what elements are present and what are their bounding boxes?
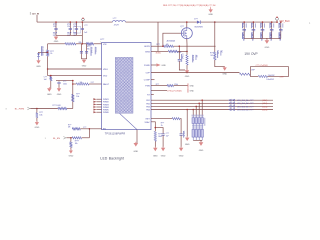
svg-text:GND: GND (179, 155, 184, 157)
wire mode stub (151, 89, 167, 91)
wire FB4 line (151, 109, 273, 111)
junction ovp divider on bus (214, 21, 216, 23)
capacitor Cout4 (270, 29, 274, 30)
svg-text:FLT: FLT (91, 82, 94, 84)
svg-text:24k9: 24k9 (158, 136, 162, 138)
wire C10 branch (155, 128, 163, 134)
junction FB2 tap (198, 103, 200, 105)
svg-text:GND: GND (57, 94, 62, 96)
net flag arrow PWM3 (93, 103, 96, 105)
resistor Rb2b (195, 129, 197, 137)
power flag bar mode (187, 88, 190, 92)
wire ovp divider top (214, 22, 216, 52)
wire ballast col 2 a (195, 116, 197, 118)
wire gate up (163, 33, 181, 46)
svg-text:GND: GND (47, 94, 52, 96)
svg-text:GND: GND (265, 47, 270, 49)
ground ovp divider (224, 66, 226, 67)
junction outcap 1 (243, 21, 245, 23)
wire ballast col 4 c (201, 137, 203, 140)
junction en link (89, 128, 91, 130)
junction sns on source (186, 51, 188, 53)
label strip R14b (195, 55, 198, 60)
label strip R14a (191, 55, 194, 63)
junction mosfet drain on bus (186, 21, 188, 23)
svg-text:OVP: OVP (146, 73, 151, 75)
wire ballast col 3 c (198, 137, 200, 140)
svg-text:VDAC: VDAC (145, 121, 151, 124)
svg-text:LED_BL0_B2+ R??: LED_BL0_B2+ R?? (237, 109, 254, 111)
wire BL_PWM (30, 108, 58, 110)
junction VIN drop meets feed (82, 43, 84, 45)
wire LED return (186, 110, 188, 138)
resistor R13 sns (168, 50, 177, 52)
resistor Rb3a (198, 118, 200, 124)
svg-text:GND: GND (69, 155, 74, 157)
svg-text:PGND: PGND (144, 65, 150, 67)
wire FB1 tap (201, 100, 203, 117)
junction mid rail top (72, 80, 74, 82)
wire ballast col 4 b (201, 124, 203, 130)
svg-text:FB4: FB4 (146, 110, 149, 112)
junction outcap 4 (271, 21, 273, 23)
svg-text:1uF: 1uF (166, 135, 169, 137)
wire zener branch (39, 51, 48, 54)
label strip Cout1 upper (241, 23, 244, 28)
svg-text:10k: 10k (76, 96, 79, 98)
junction FB3 tap (195, 106, 197, 108)
ground en pulldown (70, 149, 72, 150)
svg-text:FB3: FB3 (146, 106, 149, 108)
wire rowA (151, 118, 172, 120)
wire comp stub (151, 79, 155, 81)
ground bleed resistor (48, 87, 50, 88)
wire ballast col 2 b (195, 124, 197, 130)
label strip Cout1 lower (241, 32, 244, 39)
capacitor Cout1 (242, 29, 246, 30)
wire C10 stem (162, 135, 164, 147)
capacitor Cout2 (252, 29, 256, 30)
capacitor C??0 input (54, 28, 57, 29)
svg-text:47uH: 47uH (114, 25, 119, 27)
wire FB2 line (151, 102, 273, 104)
wire mosfet source (186, 39, 188, 55)
resistor R2 on VIN feed (86, 43, 94, 45)
wire bleed branch (50, 75, 52, 78)
wire pgnd stub (151, 64, 156, 66)
svg-text:12V_IN: 12V_IN (32, 13, 40, 15)
label strip Cout1 right (245, 23, 248, 27)
resistor R6 mid rail (72, 94, 74, 101)
wire rt stub (151, 93, 154, 95)
svg-text:BL_PWM: BL_PWM (15, 108, 24, 110)
wire top bus left segment (37, 21, 113, 23)
wire 12V_IN vertical (36, 15, 38, 22)
net flag arrow PWM1 (93, 98, 96, 100)
svg-text:LED_BL0_A2+ R??: LED_BL0_A2+ R?? (237, 102, 254, 105)
label strip C5 (90, 47, 93, 56)
resistor R18 ovp loop (258, 75, 267, 77)
junction outcap 3 (262, 21, 264, 23)
wire note gnd stub (210, 7, 212, 10)
capacitor C??2 input (75, 28, 78, 29)
wire ballast col 3 a (198, 116, 200, 118)
wire VIN feed mid (76, 43, 86, 45)
capacitor C10 (162, 134, 165, 135)
junction bleed on VDD (50, 75, 52, 77)
wire en link vertical (88, 129, 90, 138)
wire output bus (201, 21, 278, 23)
svg-text:FB1: FB1 (146, 100, 149, 102)
svg-text:GND: GND (185, 144, 190, 146)
svg-text:R??: R?? (156, 44, 159, 46)
capacitor C7 fault (57, 82, 60, 83)
wire en row (80, 128, 101, 130)
junction input cap1 on bus (70, 21, 72, 23)
junction fault on rail (72, 83, 74, 85)
wire fsw b (174, 85, 188, 87)
label strip Cout5 lower (278, 32, 281, 39)
wire input cap branch C??2 (75, 22, 77, 35)
svg-text:R?? 100R: R?? 100R (53, 105, 62, 107)
wire ballast col 4 a (201, 116, 203, 118)
svg-text:22nF/NC: 22nF/NC (268, 75, 276, 77)
svg-text:D??: D?? (194, 18, 197, 20)
resistor R15 fsw (167, 85, 174, 87)
wire vin filter cap1 (80, 44, 82, 59)
wire BL_EN (66, 137, 72, 139)
label strip C9 (182, 131, 185, 138)
wire rowA corner (180, 119, 181, 134)
svg-text:Q??: Q?? (180, 26, 184, 28)
wire outcap branch 5 (280, 22, 282, 38)
ground R20 (154, 147, 156, 148)
wire PWM4 stub (96, 106, 101, 108)
wire ovp divider stem (215, 60, 225, 67)
svg-text:FAULT: FAULT (103, 83, 110, 86)
label strip Cout5 upper (278, 23, 281, 28)
junction outcap 2 (253, 21, 255, 23)
svg-text:GND: GND (36, 66, 41, 68)
svg-text:VIN: VIN (103, 44, 107, 46)
wire BL_EN b (82, 137, 90, 139)
junction LED return (186, 109, 188, 111)
junction tp2 (276, 21, 278, 23)
port BL_EN chevron (63, 137, 66, 140)
label strip Cout2 lower (250, 32, 253, 39)
wire switch node stub down (157, 22, 159, 51)
wire pwm pulldown stem (36, 118, 38, 123)
label strip C8 (180, 54, 183, 62)
wire fault rail feed (56, 80, 73, 82)
wire PWM6 stub (96, 111, 101, 113)
wire gdrv a (151, 45, 163, 47)
junction input cap2 on bus (76, 21, 78, 23)
wire bleed stem (50, 81, 52, 89)
label strip R16a (216, 51, 219, 58)
resistor R10 en series (72, 137, 82, 139)
zener diode D1 (37, 53, 40, 56)
svg-text:2k: 2k (161, 125, 163, 127)
wire FB2 tap (198, 103, 200, 117)
wire BL_PWM b (67, 108, 73, 110)
hatched thermal pad of U1 (115, 57, 133, 113)
resistor Rb4b (201, 129, 203, 137)
svg-text:20k: 20k (79, 42, 82, 44)
wire pwm pulldown stub (36, 109, 38, 113)
wire ballast col 3 b (198, 124, 200, 130)
wire sns a (151, 50, 168, 52)
svg-text:100n: 100n (63, 83, 67, 85)
wire PWM3 stub (96, 103, 101, 105)
svg-text:(J2.3): (J2.3) (262, 103, 267, 105)
port 12V_IN bracket (29, 12, 31, 15)
wire C9 stem (180, 135, 182, 147)
wire input cap branch C??1 (69, 22, 71, 35)
net chevrons FB4 (229, 108, 232, 110)
resistor R20 iset (154, 131, 156, 141)
inductor L1 47uH (113, 21, 126, 23)
svg-text:120k: 120k (174, 84, 178, 86)
ground fault cap (58, 87, 60, 88)
junction BL_PWM pulldown (36, 108, 38, 110)
svg-text:10k: 10k (75, 143, 78, 145)
svg-text:PWM6: PWM6 (103, 112, 109, 114)
net flag arrow PWM5 (93, 109, 96, 111)
junction VFLD on rail (47, 68, 49, 70)
svg-text:2k: 2k (50, 53, 52, 55)
net chevrons FB1 (229, 99, 232, 101)
svg-text:GND: GND (199, 150, 204, 152)
wire fault cap stem (58, 84, 60, 89)
wire VIN feed to pin (94, 43, 102, 45)
svg-text:1: 1 (100, 42, 101, 44)
svg-text:ISNS: ISNS (145, 51, 150, 53)
resistor R7 series pwm (58, 107, 67, 109)
wire left rail top (47, 44, 49, 50)
capacitor C4 input (81, 28, 84, 29)
svg-text:GND: GND (161, 65, 166, 67)
label strip zener (40, 46, 43, 56)
resistor R9 en top (72, 128, 80, 130)
svg-text:TPS61196PWPR: TPS61196PWPR (105, 133, 126, 136)
junction gate node (162, 45, 164, 47)
svg-text:LED_BL0_B1+ R??: LED_BL0_B1+ R?? (237, 106, 254, 108)
wire left rail lower (47, 56, 49, 75)
wire VDD feed (48, 75, 102, 77)
wire fault cap stub (58, 81, 60, 82)
resistor R5 fault (76, 83, 89, 85)
svg-text:GND: GND (35, 127, 40, 129)
capacitor Cout3 (261, 29, 265, 30)
resistor R1 on VIN feed (65, 43, 76, 45)
capacitor C9 (180, 134, 183, 135)
svg-text:C?? 4.7uF/50V: C?? 4.7uF/50V (256, 65, 269, 67)
junction VIN drop on bus (82, 21, 84, 23)
svg-text:10k: 10k (39, 114, 42, 116)
svg-text:(J2.4): (J2.4) (262, 106, 267, 108)
transistor Q1 MOSFET AO3400A (181, 28, 192, 39)
wire PWM5 stub (96, 109, 101, 111)
resistor R11 en pulldown (70, 142, 72, 148)
wire input cap gnd rail (56, 34, 82, 36)
net chevrons FB2 (229, 102, 232, 104)
capacitor C??1 input (69, 28, 72, 29)
svg-text:GND: GND (190, 90, 195, 92)
wire outcap gnd stub (266, 38, 268, 40)
label strip Cout4 upper (269, 23, 272, 28)
wire ballast gnd stem (200, 140, 202, 142)
svg-text:GND: GND (161, 155, 166, 157)
resistor Rb3b (198, 129, 200, 137)
svg-text:(F,4G): (F,4G) (156, 53, 161, 55)
net flag arrow PWM2 (93, 101, 96, 103)
net chevrons FB3 (229, 105, 232, 107)
junction FB1 tap (201, 99, 203, 101)
svg-text:GND: GND (190, 86, 195, 88)
wire ovp row (151, 72, 240, 74)
wire FB3 line (151, 105, 273, 107)
svg-text:GDRV: GDRV (144, 46, 150, 48)
svg-text:VDD: VDD (103, 76, 108, 78)
ground zener (38, 59, 40, 60)
junction outcap 5 (280, 21, 282, 23)
svg-text:LED Backlight: LED Backlight (100, 156, 124, 160)
net flag arrow PWM4 (93, 106, 96, 108)
wire outcap branch 1 (243, 22, 245, 38)
svg-text:B5819WS: B5819WS (195, 27, 204, 29)
junction input cap0 on bus (55, 21, 57, 23)
wire ballast col 1 a (192, 116, 194, 118)
label strip C6 (94, 47, 97, 55)
capacitor C6 vin filter (85, 52, 88, 53)
wire R20 stem (154, 141, 156, 147)
ground ballast (200, 141, 202, 142)
wire top bus to switch node (126, 21, 197, 23)
svg-text:GND: GND (185, 76, 190, 78)
resistor Rb2a (195, 118, 197, 124)
wire snub stem (179, 61, 185, 70)
wire input cap branch C??0 (55, 22, 57, 35)
wire en pulldown stem (70, 147, 72, 150)
resistor R4 bleed (50, 76, 52, 80)
wire outcap branch 4 (271, 22, 273, 38)
label strip Cout5 right (281, 23, 284, 27)
label strip Cout4 lower (269, 32, 272, 39)
svg-text:GND: GND (133, 151, 138, 153)
junction rowB cap (155, 127, 157, 129)
power flag GND right pgnd (156, 63, 160, 66)
svg-text:D??(L),J?,LED(B): D??(L),J?,LED(B) (167, 91, 182, 93)
wire thermal pad pin (136, 130, 138, 143)
ground output caps (266, 39, 268, 40)
wire VFLD feed (48, 68, 102, 70)
wire fault row a (73, 83, 77, 85)
wire sns b (178, 50, 187, 52)
wire PWM2 stub (96, 101, 101, 103)
svg-text:LED_BL0_A1+ R??: LED_BL0_A1+ R?? (237, 99, 254, 102)
wire outcap branch 3 (262, 22, 264, 38)
svg-text:FB2: FB2 (146, 103, 149, 105)
label strip Cout2 right (254, 23, 257, 27)
svg-text:FSW: FSW (145, 86, 150, 88)
ground input caps (55, 35, 57, 36)
capacitor C5 vin filter (80, 52, 83, 53)
wire fault row b (89, 83, 102, 85)
svg-text:REF: R??,1W, C??(B),D4(A),D4(B: REF: R??,1W, C??(B),D4(A),D4(B),C??(B),D… (163, 4, 216, 7)
wire outcap branch 2 (252, 22, 254, 38)
junction BL_EN pulldown (70, 137, 72, 139)
svg-text:C??: C?? (83, 127, 86, 129)
wire vin filter cap2 (81, 44, 86, 59)
svg-text:GND: GND (208, 14, 213, 16)
junction snub top (179, 45, 181, 47)
svg-text:(J2.5): (J2.5) (262, 109, 267, 111)
net flag arrow PWM6 (93, 111, 96, 113)
svg-text:GND: GND (153, 155, 158, 157)
svg-text:R??: R?? (76, 93, 79, 95)
capacitor Cout5 (279, 29, 283, 30)
svg-text:GND: GND (222, 73, 227, 75)
svg-text:(J2.2): (J2.2) (262, 100, 267, 102)
wire fsw a (151, 85, 167, 87)
wire ovp loop left (250, 74, 258, 76)
svg-text:R??: R?? (156, 84, 159, 86)
diode D2 B5819WS (197, 21, 201, 24)
ballast labels blob (192, 125, 203, 127)
testpoint TP2 19V (276, 17, 279, 20)
power flag bar fsw (187, 83, 190, 87)
wire PWM1 stub (96, 98, 101, 100)
op-amp U1 LED driver box (102, 43, 151, 130)
resistor R12 gate (163, 45, 174, 47)
svg-text:10k: 10k (80, 82, 83, 84)
resistor R8 pwm pulldown (36, 113, 38, 118)
svg-text:BL_EN: BL_EN (53, 138, 60, 140)
ground LED return (186, 136, 188, 137)
svg-text:C??: C?? (84, 25, 87, 27)
wire pad diagonal (120, 113, 137, 129)
wire en pulldown stub (70, 138, 72, 142)
wire sense stem (186, 65, 188, 70)
resistor R16 ovp set (214, 52, 216, 60)
junction FB4 tap (192, 109, 194, 111)
capacitor C8 snub (178, 60, 181, 61)
ground pwm pulldown (36, 121, 38, 122)
wire mosfet drain (186, 22, 188, 28)
svg-text:COMP: COMP (144, 80, 151, 82)
resistor R14 sense (186, 55, 188, 65)
wire ballast col 1 b (192, 124, 194, 130)
wire tp2 stub (276, 20, 278, 22)
resistor R19 rowA (172, 118, 180, 120)
svg-text:GND: GND (82, 66, 87, 68)
label strip R16b (219, 51, 222, 56)
wire ballast bottom rail (193, 139, 202, 141)
ground of note (210, 8, 212, 9)
label strip Cout3 upper (259, 23, 262, 28)
wire VIN drop vertical (81, 22, 83, 44)
junction zener on rail (47, 52, 49, 54)
resistor R3 on left rail (47, 50, 49, 56)
svg-text:VFLD: VFLD (103, 69, 109, 71)
wire ovp loop (250, 67, 288, 77)
wire FB1 line (151, 99, 273, 101)
label strip Cout3 right (263, 23, 266, 27)
ground vin filter caps (83, 59, 85, 60)
label strip Cout2 upper (250, 23, 253, 28)
resistor Rb4a (201, 118, 203, 124)
